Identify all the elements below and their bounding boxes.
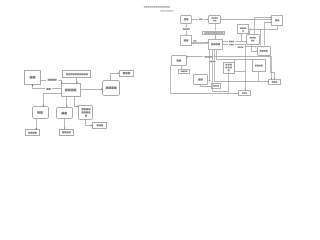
wire twoline-riser1 (249, 30, 251, 35)
rect product-data R (253, 60, 266, 72)
rect right of threeline L (93, 123, 107, 129)
wire branch down to bottombox (245, 47, 247, 91)
caption text right cluster (160, 10, 173, 12)
wire personnelR-info (201, 85, 211, 87)
wire maintain v3 to productlibR-left (215, 50, 269, 82)
wire maintain-businessinfo upper (223, 45, 257, 47)
label box manage-login L (63, 71, 91, 78)
rect personnel-info R (212, 84, 221, 89)
box user3 R (272, 16, 283, 26)
wire C to recruit (44, 94, 62, 107)
wire enterprise-info-down (181, 66, 183, 69)
wide label box R (203, 32, 225, 35)
wire enterprise-busline2 (171, 66, 238, 94)
wire netcenter-user3 (221, 19, 272, 21)
wire maintain v1 to personnelR (209, 50, 210, 81)
box product-lib L (120, 71, 134, 77)
wire twoline-businessinfo (252, 45, 257, 52)
box business-process L (103, 81, 120, 96)
wire user2-maintain pair (192, 42, 208, 44)
box user L (25, 71, 41, 85)
box twoline R (247, 35, 260, 45)
wire down to productlibR (271, 57, 273, 80)
wire storelib-down (241, 35, 243, 42)
wire threelineR-down (228, 73, 230, 94)
wire I recruit-down (36, 119, 38, 130)
box threeline R (224, 63, 235, 74)
wire user-login A (41, 81, 62, 84)
wire riser twoline-user3 (255, 18, 272, 35)
wire elbow mid (235, 60, 246, 72)
wire E to threeline (75, 97, 79, 107)
wire user3-storelib (250, 26, 278, 30)
wire businessinfo-productlibR (271, 56, 275, 80)
wire netcenter-widelabel (215, 24, 217, 31)
box enterprise R (172, 56, 187, 66)
wire productx-enterprise (187, 56, 272, 58)
wire maintain v2 bus1 (213, 50, 229, 92)
box recruit L (33, 107, 49, 119)
wire maintain v4 to productdata (217, 50, 252, 60)
wire maintain-twoline (223, 41, 246, 43)
box personnel R (194, 75, 208, 85)
wire F to business (81, 89, 103, 91)
box netcenter R (209, 16, 221, 24)
wire widelabel-maintain (215, 35, 217, 39)
wire platform-netcenter (192, 19, 209, 21)
wire businessinfo-riser2 (260, 30, 262, 46)
wire D to personnel (66, 97, 68, 107)
rect storelib R (238, 25, 249, 34)
rect bottom box R (239, 91, 251, 96)
wire H threeline-out (86, 120, 93, 126)
wire businessinfo-user3 (265, 23, 272, 46)
wire platform-user2 (186, 24, 188, 35)
rect under personnel L (60, 130, 74, 136)
wire K label-to-maintain (76, 78, 78, 84)
box user2 R (181, 36, 192, 46)
box personnel L (57, 108, 73, 119)
title text (144, 6, 170, 8)
rect enterprise-info R (179, 70, 190, 74)
rect product-lib R (269, 80, 281, 85)
box maintain-info L (62, 84, 81, 97)
box business-info R (258, 47, 271, 56)
box maintain-info R (209, 40, 223, 50)
wire feedback B (33, 85, 62, 89)
wire J personnel-down (64, 119, 66, 129)
box threeline L (79, 106, 93, 120)
rect under recruit L (26, 130, 40, 136)
wire G to productlib (111, 74, 119, 81)
wire productdata-down (258, 72, 260, 82)
box platform R (181, 16, 192, 24)
